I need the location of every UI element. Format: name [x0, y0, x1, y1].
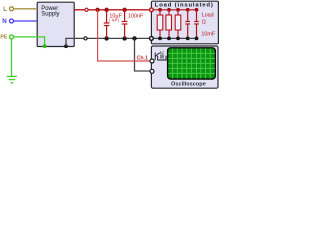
svg-text:Supply: Supply	[41, 12, 59, 18]
svg-text:Load: Load	[202, 13, 214, 19]
node PE chassis dot	[43, 44, 47, 48]
svg-text:100nF: 100nF	[128, 14, 144, 20]
terminal N connector	[10, 19, 14, 23]
svg-text:10mF: 10mF	[201, 32, 215, 38]
oscilloscope screen	[168, 48, 216, 79]
wire Ch1 probe	[98, 10, 150, 61]
load plus rail	[151, 9, 196, 11]
connector scope CH1	[150, 59, 154, 63]
oscilloscope box	[151, 46, 218, 88]
node minus scope tap	[132, 36, 136, 40]
capacitor C2 100nF	[122, 10, 128, 39]
svg-text:( 1µF): ( 1µF)	[109, 18, 119, 22]
load minus rail	[151, 37, 196, 39]
svg-text:L: L	[3, 6, 7, 13]
node plus C1	[104, 8, 108, 12]
capacitor C4 load	[194, 8, 199, 40]
terminal PE connector	[10, 35, 14, 39]
capacitor C3 load	[185, 8, 190, 40]
wire N	[14, 20, 38, 22]
wire scope ground	[135, 38, 151, 71]
AC coupling icon	[155, 52, 166, 60]
connector minus output	[84, 37, 87, 40]
svg-text:Oscilloscope: Oscilloscope	[171, 82, 206, 88]
svg-text:N: N	[2, 18, 7, 25]
wire PE down to earth	[11, 39, 13, 77]
connector plus output	[85, 8, 88, 11]
node minus C2	[122, 36, 126, 40]
wire minus rail from chassis	[66, 38, 151, 46]
connector load plus	[150, 8, 154, 12]
svg-text:Ch.1: Ch.1	[137, 55, 148, 61]
connector scope ground	[150, 69, 154, 73]
wire plus rail	[74, 9, 151, 11]
node plus C2	[122, 8, 126, 12]
resistor R2	[166, 8, 172, 40]
connector load minus	[150, 37, 154, 41]
load box	[151, 1, 218, 44]
svg-text:AC: AC	[158, 51, 165, 55]
node plus Ch1 tap	[95, 8, 99, 12]
ground earth symbol	[7, 76, 17, 82]
resistor R3	[175, 8, 181, 40]
node chassis minus dot	[64, 44, 68, 48]
screen graticule	[168, 48, 215, 78]
svg-text:Load (insulated): Load (insulated)	[155, 3, 213, 9]
terminal L connector	[10, 7, 14, 11]
wire L	[14, 8, 38, 10]
power supply box	[37, 2, 74, 46]
capacitor C1 10uF	[104, 10, 110, 39]
resistor R1	[157, 8, 163, 40]
node minus C1	[104, 36, 108, 40]
wire PE horizontal into box	[14, 37, 45, 46]
svg-text:Ω: Ω	[202, 19, 206, 25]
svg-text:PE: PE	[0, 35, 7, 41]
